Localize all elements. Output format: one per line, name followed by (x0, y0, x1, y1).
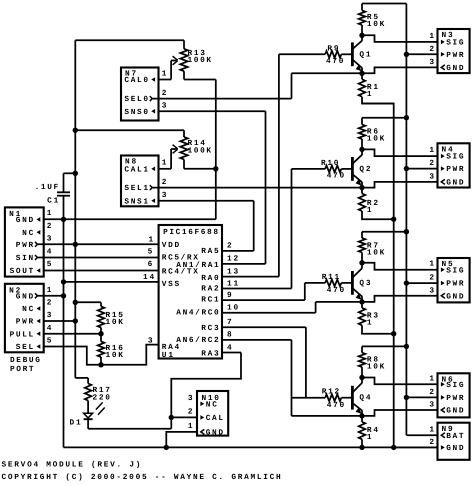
svg-text:2: 2 (429, 388, 434, 397)
svg-text:N8: N8 (125, 158, 137, 167)
svg-text:1: 1 (429, 425, 434, 434)
svg-text:VSS: VSS (162, 280, 180, 289)
svg-text:.1UF: .1UF (35, 183, 59, 192)
wire CAL1 to wiper (159, 168, 172, 170)
svg-text:4: 4 (47, 247, 52, 256)
wiper arrow R14 (170, 149, 172, 169)
svg-text:VDD: VDD (162, 241, 180, 250)
svg-text:PORT: PORT (10, 365, 34, 374)
capacitor C1 (63, 173, 65, 192)
wire RC0 riser to Q3 emitter (315, 302, 317, 313)
svg-text:220: 220 (93, 393, 111, 402)
resistor R3 (361, 302, 363, 308)
resistor R2 (361, 188, 363, 194)
junction R16/SEL (98, 362, 103, 367)
wire emitter Q3 left (316, 301, 362, 303)
svg-text:3: 3 (429, 401, 434, 410)
svg-text:Q2: Q2 (359, 165, 371, 174)
junction GND rail/bottom rail (391, 445, 396, 450)
resistor R12 (292, 397, 326, 399)
junction C1/GND (61, 217, 66, 222)
pin N10 GND (201, 429, 205, 434)
wire RA5 pin row (222, 250, 254, 252)
svg-text:8: 8 (227, 331, 232, 340)
junction +5/R15 (73, 300, 78, 305)
svg-text:SNS0: SNS0 (124, 108, 148, 117)
wire CAL row (171, 416, 197, 418)
wire SEL1 to Q2 emitter (152, 187, 362, 189)
svg-text:RA3: RA3 (201, 350, 219, 359)
svg-text:1: 1 (429, 146, 434, 155)
svg-text:10K: 10K (367, 249, 385, 258)
svg-text:SIG: SIG (446, 39, 464, 48)
wire collector to N4 SIG (362, 149, 438, 156)
wire PULL row (44, 333, 101, 335)
wire pin10 RC0 row (222, 312, 316, 314)
resistor R1 (361, 73, 363, 79)
pin N9 GND (441, 445, 445, 450)
svg-text:RA2: RA2 (201, 284, 219, 293)
svg-text:1: 1 (367, 90, 372, 99)
svg-text:C1: C1 (47, 197, 59, 206)
junction CAL net (169, 415, 174, 420)
wire emitter Q4 left (292, 415, 363, 417)
svg-text:100K: 100K (188, 56, 212, 65)
svg-text:13: 13 (227, 267, 239, 276)
svg-text:SIN: SIN (16, 254, 34, 263)
wire +5V bus vertical (74, 40, 76, 378)
resistor R16 (100, 334, 102, 342)
wire RA2 riser to R10 (291, 169, 293, 289)
junction collector Q2 (359, 147, 364, 152)
svg-text:2: 2 (227, 242, 232, 251)
svg-text:Q4: Q4 (359, 394, 371, 403)
junction N2 GND (61, 293, 66, 298)
wire SNS0 drop to AN1/RA1 (265, 111, 267, 264)
wire SEL jog (44, 345, 159, 365)
svg-text:PWR: PWR (446, 280, 464, 289)
svg-text:NC: NC (22, 229, 34, 238)
svg-text:SERVO4 MODULE (REV. J): SERVO4 MODULE (REV. J) (2, 460, 141, 469)
svg-text:SOUT: SOUT (10, 267, 34, 276)
svg-text:GND: GND (16, 216, 34, 225)
junction R7/PWR rail (404, 229, 409, 234)
svg-text:RC3: RC3 (201, 324, 219, 333)
svg-text:Q1: Q1 (359, 50, 371, 59)
svg-text:1: 1 (149, 235, 154, 244)
wire R5 top to PWR rail (362, 3, 406, 5)
LED D1 (87, 401, 89, 414)
junction R8/PWR rail (404, 344, 409, 349)
svg-text:GND: GND (446, 407, 464, 416)
wire N5 PWR from rail (406, 282, 437, 284)
wire R13 bottom to CAL vertical (184, 79, 216, 81)
svg-text:CAL0: CAL0 (124, 76, 148, 85)
svg-text:GND: GND (16, 292, 34, 301)
svg-text:CAL: CAL (206, 414, 224, 423)
connector N10 (197, 391, 228, 436)
wire pin8 RC2 row (222, 339, 292, 341)
svg-text:R9: R9 (327, 44, 339, 53)
svg-text:SIG: SIG (446, 153, 464, 162)
connector N9 (438, 423, 470, 460)
svg-text:1: 1 (47, 209, 52, 218)
connector N7 (121, 68, 159, 121)
wire RC2 drop to Q4 emitter (291, 340, 293, 416)
wire collector to N3 SIG (362, 35, 438, 42)
junction PWR/+5 bus (73, 242, 78, 247)
wire R8 top from PWR rail (362, 345, 406, 347)
transistor Q3 (351, 271, 354, 295)
svg-text:RA0: RA0 (201, 274, 219, 283)
svg-text:10K: 10K (106, 318, 124, 327)
svg-text:PWR: PWR (446, 51, 464, 60)
svg-text:PWR: PWR (446, 165, 464, 174)
wire N4 PWR from rail (406, 168, 437, 170)
svg-text:GND: GND (446, 292, 464, 301)
svg-text:10K: 10K (367, 20, 385, 29)
pin N9 BAT (441, 433, 445, 438)
junction emitter Q1 (359, 71, 364, 76)
wire N9 GND from rail (394, 446, 438, 448)
svg-text:PULL: PULL (10, 330, 34, 339)
pin N5 GND (441, 293, 445, 298)
resistor R17 (87, 378, 89, 384)
junction collector Q1 (359, 33, 364, 38)
wire PWR row to U1 VDD (37, 243, 158, 245)
connector N5 (438, 258, 470, 302)
svg-text:SIG: SIG (446, 266, 464, 275)
svg-text:GND: GND (446, 179, 464, 188)
wire N3 PWR from rail (406, 53, 437, 55)
wire R14 bottom (184, 168, 216, 170)
wire R2 to ground rail (362, 211, 394, 219)
svg-text:2: 2 (47, 299, 52, 308)
LED arrows (96, 402, 103, 409)
resistor R6 (361, 118, 363, 125)
pin N3 GND (441, 65, 445, 70)
wire ground rail bottom (64, 446, 438, 448)
svg-text:SIG: SIG (446, 381, 464, 390)
svg-text:2: 2 (429, 159, 434, 168)
wire collector to N6 SIG (362, 378, 438, 385)
svg-text:DEBUG: DEBUG (10, 356, 40, 365)
pin N10 NC (200, 402, 204, 407)
svg-text:4: 4 (47, 324, 52, 333)
svg-text:470: 470 (327, 286, 345, 295)
svg-text:1: 1 (188, 422, 193, 431)
transistor Q2 (351, 157, 354, 181)
wire RC3 drop to R12 (305, 327, 307, 398)
transistor Q4 (351, 386, 354, 410)
connector N8 (121, 156, 159, 207)
wire R1 to ground rail (362, 97, 394, 104)
connector N2 (5, 284, 44, 353)
pin N3 SIG (441, 40, 445, 45)
junction emitter Q3 (359, 299, 364, 304)
svg-text:1: 1 (162, 159, 167, 168)
svg-text:11: 11 (227, 279, 239, 288)
wire N6 PWR from rail (406, 396, 437, 398)
svg-text:3: 3 (47, 311, 52, 320)
resistor R7 (361, 232, 363, 238)
svg-text:4: 4 (227, 343, 232, 352)
svg-text:NC: NC (22, 305, 34, 314)
wire +5V to R17 corner (75, 377, 88, 379)
pin N4 PWR (441, 166, 445, 171)
svg-text:10K: 10K (106, 351, 124, 360)
resistor R11 (305, 282, 325, 284)
wire R6 top from PWR rail (362, 117, 406, 119)
svg-text:3: 3 (162, 191, 167, 200)
wire SEL0 (152, 98, 291, 100)
svg-text:1: 1 (367, 433, 372, 442)
wire D1 to CAL net (88, 428, 171, 430)
svg-text:3: 3 (429, 58, 434, 67)
wire N4 GND to emitter (362, 182, 438, 188)
junction R14 bottom (213, 166, 218, 171)
svg-text:RC1: RC1 (201, 296, 219, 305)
pin N3 PWR (441, 52, 445, 57)
wiper arrow R13 (170, 61, 172, 80)
svg-text:SEL0: SEL0 (124, 95, 148, 104)
wire pin4 RA3 row (222, 352, 241, 354)
junction R4/rail (359, 445, 364, 450)
wire GND rail (362, 104, 394, 448)
wire pin11 RA2 row (222, 288, 292, 290)
junction collector Q3 (359, 260, 364, 265)
svg-text:D1: D1 (70, 419, 82, 428)
svg-text:R12: R12 (322, 388, 340, 397)
resistor R13 (183, 40, 185, 49)
junction N10 GND/rail (164, 445, 169, 450)
svg-text:PWR: PWR (16, 318, 34, 327)
svg-text:1: 1 (367, 319, 372, 328)
connector N3 (438, 29, 470, 73)
wire CAL vertical to ground row (215, 80, 217, 220)
svg-text:NC: NC (206, 400, 218, 409)
wire N9 BAT from PWR rail (406, 434, 437, 436)
resistor R10 (292, 168, 326, 170)
junction N3 PWR/rail (404, 52, 409, 57)
wire C1 top to +5 bus (64, 172, 76, 174)
svg-text:5: 5 (47, 260, 52, 269)
resistor R14 (183, 130, 185, 137)
junction C1/+5 (73, 171, 78, 176)
wire +5 to R15 (75, 301, 101, 303)
svg-text:1: 1 (367, 206, 372, 215)
svg-text:14: 14 (143, 273, 155, 282)
wire RC1 riser to R11 (304, 283, 306, 300)
wire N6 GND to emitter (362, 410, 438, 416)
wire pin13 RA0 row (222, 276, 279, 278)
wire VSS row (64, 281, 159, 283)
svg-text:3: 3 (429, 173, 434, 182)
pin N10 CAL (200, 415, 204, 420)
junction R3/gnd rail (391, 331, 396, 336)
connector N6 (438, 373, 470, 417)
resistor R5 (361, 4, 363, 11)
wire SNS1 (159, 200, 254, 202)
svg-text:GND: GND (446, 444, 464, 453)
svg-text:BAT: BAT (446, 432, 464, 441)
wire PWR rail (405, 4, 407, 436)
svg-text:10K: 10K (367, 363, 385, 372)
svg-text:2: 2 (429, 45, 434, 54)
svg-text:2: 2 (429, 274, 434, 283)
wire SEL0 riser to Q1 emitter (291, 73, 293, 98)
wire RA3 drop (171, 353, 241, 418)
wire N3 GND to emitter (362, 67, 438, 73)
svg-text:100K: 100K (188, 147, 212, 156)
svg-text:SNS1: SNS1 (124, 197, 148, 206)
wire emitter Q1 left (292, 72, 363, 74)
svg-text:SEL: SEL (16, 343, 34, 352)
svg-text:7: 7 (227, 318, 232, 327)
wire SNS0 (159, 110, 266, 112)
junction R6/PWR rail (404, 115, 409, 120)
svg-text:Q3: Q3 (359, 279, 371, 288)
svg-text:CAL1: CAL1 (124, 165, 148, 174)
wire R14 top from +5 bus (75, 129, 184, 131)
junction emitter Q2 (359, 185, 364, 190)
wire pin9 RC1 row (222, 299, 305, 301)
wire N5 GND to emitter (362, 296, 438, 302)
svg-text:5: 5 (47, 337, 52, 346)
svg-text:2: 2 (162, 89, 167, 98)
resistor R9 (279, 53, 325, 55)
svg-text:2: 2 (429, 438, 434, 447)
svg-text:1: 1 (429, 32, 434, 41)
wire N2 PWR row (44, 320, 76, 322)
svg-text:2: 2 (188, 408, 193, 417)
wire N1 GND row to CAL net (44, 218, 216, 220)
wire SNS1 drop to RA5 (253, 201, 255, 251)
svg-text:2: 2 (162, 178, 167, 187)
svg-text:1: 1 (162, 70, 167, 79)
junction R15/PULL (98, 331, 103, 336)
IC U1 PIC16F688 (159, 225, 222, 359)
pin N6 GND (441, 408, 445, 413)
junction VSS/GND bus (61, 279, 66, 284)
wire pin12 AN1/RA1 row (222, 263, 266, 265)
junction collector Q4 (359, 375, 364, 380)
svg-text:9: 9 (227, 291, 232, 300)
svg-text:3: 3 (148, 337, 153, 346)
svg-text:12: 12 (227, 255, 239, 264)
svg-text:470: 470 (326, 57, 344, 66)
junction N2 PWR/+5 (73, 318, 78, 323)
wire pin7 RC3 row (222, 326, 306, 328)
wire collector to N5 SIG (362, 263, 438, 270)
pin N5 PWR (441, 281, 445, 286)
wire R4 to ground rail (361, 439, 363, 447)
svg-text:PWR: PWR (16, 241, 34, 250)
pin N6 PWR (441, 395, 445, 400)
wire N10 GND (166, 432, 197, 448)
connector N1 (5, 207, 44, 276)
svg-text:1: 1 (47, 286, 52, 295)
junction emitter Q4 (359, 413, 364, 418)
transistor Q1 (351, 42, 354, 66)
svg-text:PWR: PWR (446, 394, 464, 403)
junction N4 PWR/rail (404, 166, 409, 171)
svg-text:3: 3 (47, 235, 52, 244)
svg-text:COPYRIGHT (C) 2000-2005 -- WAY: COPYRIGHT (C) 2000-2005 -- WAYNE C. GRAM… (2, 473, 282, 482)
junction N5 PWR/rail (404, 280, 409, 285)
svg-text:R10: R10 (321, 159, 339, 168)
svg-text:470: 470 (327, 401, 345, 410)
pin N4 SIG (441, 154, 445, 159)
junction N6 PWR/rail (404, 395, 409, 400)
svg-text:U1: U1 (162, 351, 174, 360)
wire CAL0 to wiper (159, 79, 172, 81)
svg-text:PIC16F688: PIC16F688 (163, 228, 218, 237)
junction R2/gnd rail (391, 217, 396, 222)
svg-text:SEL1: SEL1 (124, 184, 148, 193)
resistor R8 (361, 346, 363, 352)
svg-text:5: 5 (148, 248, 153, 257)
junction +5/R14 (73, 128, 78, 133)
wire GND bus vertical (63, 219, 65, 447)
resistor R4 (361, 416, 363, 422)
svg-text:2: 2 (47, 222, 52, 231)
pin N5 SIG (441, 267, 445, 272)
svg-text:R11: R11 (322, 273, 340, 282)
svg-text:RA5: RA5 (201, 247, 219, 256)
svg-text:1: 1 (429, 260, 434, 269)
svg-text:10: 10 (227, 304, 239, 313)
wire SOUT row to U1 RC4/TX (44, 270, 159, 272)
svg-text:1: 1 (429, 374, 434, 383)
pin N6 SIG (441, 382, 445, 387)
svg-text:3: 3 (429, 286, 434, 295)
svg-text:GND: GND (446, 64, 464, 73)
svg-text:3: 3 (162, 102, 167, 111)
svg-text:GND: GND (206, 429, 224, 438)
resistor R15 (100, 302, 102, 306)
wire +5V top to R13 (75, 39, 184, 41)
svg-text:3: 3 (188, 394, 193, 403)
wire SIN row to U1 RC5/RX (37, 257, 158, 259)
wire N2 GND row (37, 295, 63, 297)
pin N4 GND (441, 179, 445, 184)
svg-text:470: 470 (327, 172, 345, 181)
wire R7 top from PWR rail (362, 231, 406, 233)
svg-text:6: 6 (148, 260, 153, 269)
svg-text:10K: 10K (367, 134, 385, 143)
wire RA0 riser to R9 (278, 54, 280, 276)
wire R3 to ground rail (362, 325, 394, 333)
connector N4 (438, 143, 470, 187)
